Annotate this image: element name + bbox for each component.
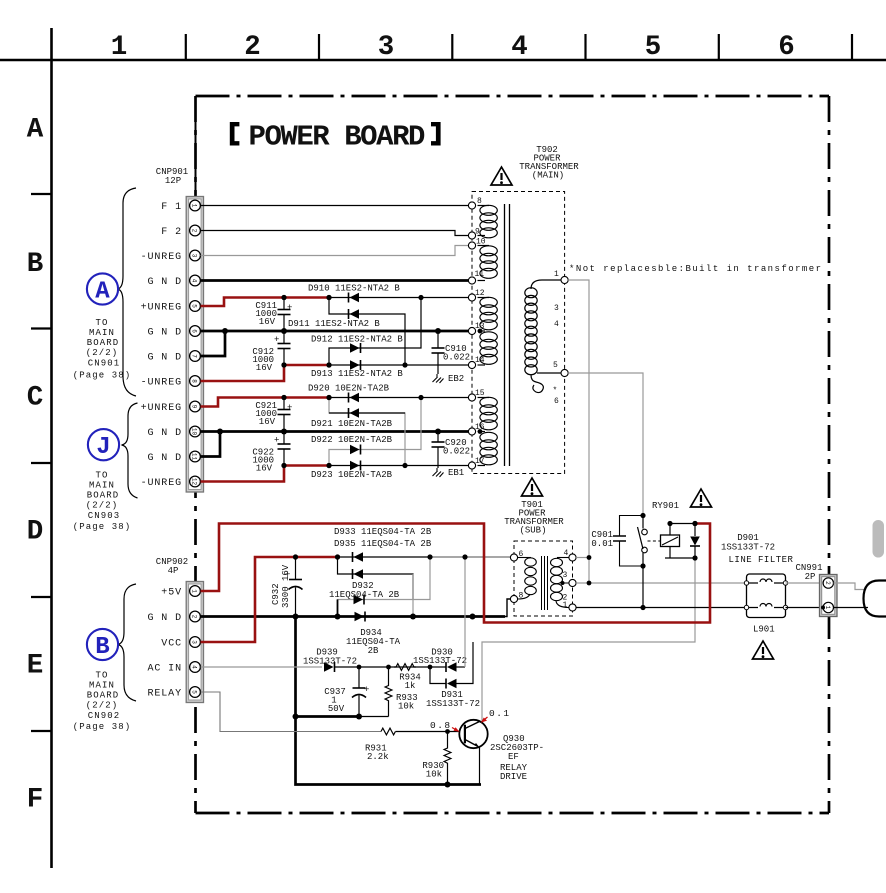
warning triangle T902 bbox=[491, 167, 512, 185]
AC plug bbox=[864, 581, 886, 617]
svg-text:MAIN: MAIN bbox=[89, 681, 115, 691]
label D934 bbox=[346, 628, 401, 656]
svg-text:17: 17 bbox=[475, 457, 485, 466]
svg-text:3: 3 bbox=[563, 571, 568, 580]
svg-text:D933 11EQS04-TA 2B: D933 11EQS04-TA 2B bbox=[334, 527, 432, 537]
svg-text:(2/2): (2/2) bbox=[86, 348, 119, 358]
red wire +5V loop bbox=[201, 524, 711, 623]
svg-text:4: 4 bbox=[511, 32, 528, 63]
wire D934 rail to T901 pin8 bbox=[473, 599, 511, 617]
svg-text:D911 11ES2-NTA2 B: D911 11ES2-NTA2 B bbox=[288, 319, 380, 329]
wire D932 left leg bbox=[337, 600, 339, 617]
red wire -UNREG pin8 bbox=[201, 365, 330, 381]
diode D935 bbox=[353, 569, 364, 579]
wire D911 branch bbox=[329, 298, 405, 366]
svg-text:LINE FILTER: LINE FILTER bbox=[729, 555, 794, 565]
svg-text:D935 11EQS04-TA 2B: D935 11EQS04-TA 2B bbox=[334, 539, 432, 549]
wire D933 rail y=557 bbox=[338, 556, 511, 558]
svg-text:G N D: G N D bbox=[147, 328, 182, 339]
svg-text:CN901: CN901 bbox=[88, 359, 121, 369]
wire D931 branch bbox=[430, 642, 473, 684]
T901 pin3 dot bbox=[561, 581, 565, 585]
svg-text:MAIN: MAIN bbox=[89, 328, 115, 338]
svg-text:(2/2): (2/2) bbox=[86, 501, 119, 511]
svg-text:2B: 2B bbox=[368, 646, 379, 656]
wire filter to CN991 top bbox=[786, 582, 823, 584]
svg-text:14: 14 bbox=[475, 356, 485, 365]
right bracket bbox=[431, 122, 441, 146]
svg-text:4: 4 bbox=[191, 279, 198, 283]
red wire VCC bbox=[201, 557, 338, 642]
svg-text:16V: 16V bbox=[256, 363, 273, 373]
svg-text:12: 12 bbox=[475, 289, 485, 298]
wire -UNREG to T902 pin10 bbox=[201, 246, 469, 256]
junction dots upper section bbox=[217, 295, 441, 468]
diode D923 bbox=[350, 461, 361, 471]
capacitor C912 bbox=[274, 331, 291, 365]
svg-text:C932: C932 bbox=[271, 583, 281, 605]
wire F1 to T902 pin8 bbox=[201, 205, 469, 207]
capacitor C910 bbox=[432, 331, 445, 374]
svg-text:D923 10E2N-TA2B: D923 10E2N-TA2B bbox=[311, 470, 393, 480]
svg-text:D922 10E2N-TA2B: D922 10E2N-TA2B bbox=[311, 435, 393, 445]
diode D932 bbox=[354, 595, 365, 605]
label R930 10k bbox=[422, 761, 444, 780]
svg-text:BOARD: BOARD bbox=[87, 691, 120, 701]
red wire +UNREG pin5 bbox=[201, 298, 330, 307]
wire D921 diode lead bbox=[329, 412, 405, 414]
resistor R934 bbox=[394, 664, 416, 671]
wire thick C937 bottom rail bbox=[296, 715, 360, 718]
diode D935 branch wire bbox=[338, 557, 414, 600]
svg-text:+: + bbox=[287, 403, 292, 413]
svg-text:CN903: CN903 bbox=[88, 511, 121, 521]
wire thick GND riser and C937 rail bbox=[296, 617, 482, 785]
svg-text:TO: TO bbox=[95, 318, 108, 328]
L901 side node diamonds bbox=[744, 581, 787, 610]
svg-text:15: 15 bbox=[475, 389, 485, 398]
svg-text:*Not replacesble:Built in tran: *Not replacesble:Built in transformer bbox=[569, 264, 822, 274]
T902 primary pin numbers bbox=[553, 270, 560, 406]
svg-text:12: 12 bbox=[191, 478, 198, 486]
svg-text:J: J bbox=[96, 434, 110, 461]
T902 winding pins 15-16-17 bbox=[478, 397, 498, 465]
diode D913 bbox=[350, 360, 361, 370]
svg-text:2: 2 bbox=[824, 581, 831, 585]
svg-text:16V: 16V bbox=[259, 317, 276, 327]
wire GND pin2 thick rail bbox=[201, 615, 506, 618]
wire border stub bbox=[195, 117, 197, 197]
diode D920 bbox=[349, 393, 360, 403]
ground EB2 bbox=[433, 374, 444, 383]
capacitor C920 bbox=[432, 432, 445, 469]
node A text TO MAIN BOARD CN901 bbox=[73, 318, 132, 381]
node J text TO MAIN BOARD CN903 bbox=[73, 471, 132, 533]
wire GND pin6 to T902 pin13 (thick) bbox=[201, 330, 469, 333]
capacitor C911 bbox=[278, 298, 293, 332]
diode D934 (on thick rail) bbox=[355, 612, 366, 622]
label T901 POWER TRANSFORMER (SUB) bbox=[504, 500, 564, 536]
svg-text:6: 6 bbox=[778, 32, 795, 63]
junction dots on red rails bbox=[281, 295, 697, 560]
wire F2 to T902 pin9 bbox=[201, 231, 469, 236]
svg-text:9: 9 bbox=[191, 405, 198, 409]
svg-text:4: 4 bbox=[554, 320, 559, 329]
T902 winding pins 10-11 bbox=[478, 246, 498, 281]
label CNP901 12P bbox=[156, 167, 188, 186]
svg-text:9: 9 bbox=[475, 228, 480, 237]
svg-text:16V: 16V bbox=[256, 464, 273, 474]
svg-text:D901: D901 bbox=[737, 533, 759, 543]
svg-text:2: 2 bbox=[191, 229, 198, 233]
svg-text:4: 4 bbox=[564, 549, 569, 558]
svg-text:1: 1 bbox=[554, 270, 559, 279]
diode D921 bbox=[349, 408, 360, 418]
svg-text:0.1: 0.1 bbox=[489, 708, 511, 719]
svg-text:EF: EF bbox=[508, 752, 519, 762]
label C921 bbox=[255, 401, 277, 427]
svg-text:16: 16 bbox=[475, 423, 485, 432]
CNP901 pin name labels bbox=[141, 202, 182, 489]
diode D939 bbox=[324, 662, 335, 672]
transistor Q930 bbox=[459, 720, 487, 785]
wire D920 row to T902 pin15 bbox=[329, 397, 469, 399]
brace group A (pins 1-8) bbox=[118, 188, 137, 396]
svg-text:TO: TO bbox=[95, 471, 108, 481]
svg-text:2.2k: 2.2k bbox=[367, 752, 389, 762]
wire D922 branch bbox=[329, 398, 421, 466]
ground EB1 bbox=[433, 468, 444, 477]
svg-text:-UNREG: -UNREG bbox=[141, 252, 182, 263]
wire D913 row to T902 pin14 bbox=[329, 364, 469, 366]
svg-text:DRIVE: DRIVE bbox=[500, 772, 527, 782]
CNP902 pin circles 1-5 bbox=[190, 586, 201, 698]
svg-text:50V: 50V bbox=[328, 704, 345, 714]
ruler row letters bbox=[27, 115, 44, 816]
wire T901 pin3 to line filter bbox=[576, 582, 746, 584]
svg-text:D910 11ES2-NTA2 B: D910 11ES2-NTA2 B bbox=[308, 284, 400, 294]
label T902 POWER TRANSFORMER (MAIN) bbox=[519, 145, 579, 181]
svg-text:F: F bbox=[27, 785, 44, 816]
capacitor C932 bbox=[285, 557, 303, 617]
wire R933 bottom lead bbox=[359, 716, 389, 718]
CNP902 pin name labels bbox=[147, 588, 182, 700]
label CN991 2P bbox=[795, 563, 822, 582]
title POWER BOARD bbox=[230, 120, 441, 153]
wire T902 pin1 down bbox=[568, 280, 589, 583]
gray pill (scroll thumb) bbox=[873, 520, 885, 558]
label C911 bbox=[255, 301, 277, 327]
resistor R930 bbox=[444, 732, 451, 785]
svg-text:F 1: F 1 bbox=[161, 202, 182, 213]
svg-text:5: 5 bbox=[553, 361, 558, 370]
red wire +UNREG pin9 bbox=[201, 398, 330, 407]
node A circle bbox=[87, 273, 118, 305]
svg-text:1: 1 bbox=[563, 601, 568, 610]
T901 pin numbers bbox=[519, 549, 569, 610]
svg-text:6: 6 bbox=[191, 329, 198, 333]
svg-text:C: C bbox=[27, 383, 44, 414]
svg-text:5: 5 bbox=[645, 32, 662, 63]
T901 dashed box bbox=[514, 541, 573, 616]
connector CNP902 bbox=[186, 582, 203, 703]
capacitor C922 bbox=[274, 432, 291, 466]
diode D933 bbox=[353, 552, 364, 562]
svg-text:VCC: VCC bbox=[161, 639, 182, 650]
label C901 0.01 bbox=[591, 530, 613, 549]
svg-text:11: 11 bbox=[475, 270, 485, 279]
svg-text:+5V: +5V bbox=[161, 588, 182, 599]
svg-text:4: 4 bbox=[191, 665, 198, 669]
T902 center tap dots bbox=[478, 329, 483, 334]
svg-text:G N D: G N D bbox=[147, 453, 182, 464]
junction dots lower section bbox=[293, 554, 476, 787]
svg-text:5: 5 bbox=[191, 304, 198, 308]
svg-text:D913 11ES2-NTA2 B: D913 11ES2-NTA2 B bbox=[311, 369, 403, 379]
wire GND pin4 to T902 pin11 (thick) bbox=[201, 279, 469, 282]
label CNP902 4P bbox=[156, 557, 188, 576]
svg-text:EB2: EB2 bbox=[448, 374, 464, 384]
svg-text:(MAIN): (MAIN) bbox=[532, 171, 564, 181]
ruler ticks top bbox=[186, 34, 852, 60]
T901 pin terminals bbox=[510, 554, 576, 611]
svg-text:AC IN: AC IN bbox=[147, 664, 182, 675]
svg-text:16V: 16V bbox=[259, 417, 276, 427]
T901 core bbox=[542, 556, 548, 610]
T902 primary winding bbox=[525, 280, 561, 393]
svg-text:0.022: 0.022 bbox=[443, 447, 470, 457]
svg-text:A: A bbox=[95, 279, 110, 306]
svg-text:10: 10 bbox=[476, 238, 486, 247]
wire rail gray portion to T901 pin6 bbox=[430, 556, 511, 558]
svg-text:B: B bbox=[95, 634, 109, 661]
label D932 bbox=[329, 581, 400, 600]
CNP901 pin circles 1-12 bbox=[190, 200, 201, 487]
wire CN991 pin1 to plug bbox=[834, 607, 869, 609]
T902 winding pins 8-9 bbox=[478, 205, 498, 238]
T901 left winding bbox=[518, 558, 537, 600]
svg-text:1: 1 bbox=[824, 606, 831, 610]
wire D931/collector return rail bbox=[482, 558, 695, 723]
label C932 3300 16V (rotated) bbox=[271, 564, 291, 608]
connector CN991 bbox=[820, 575, 838, 617]
svg-text:(Page 38): (Page 38) bbox=[73, 371, 132, 381]
svg-text:TO: TO bbox=[95, 671, 108, 681]
label D930 bbox=[413, 648, 467, 667]
wire GND pin10 to T902 pin16 (thick) bbox=[201, 430, 469, 433]
svg-text:G N D: G N D bbox=[147, 613, 182, 624]
label Q930 2SC2603TP-EF bbox=[490, 734, 544, 782]
resistor R931 bbox=[381, 728, 395, 735]
wire CN991 pin2 to plug bbox=[834, 583, 865, 590]
svg-text:1SS133T-72: 1SS133T-72 bbox=[303, 657, 357, 667]
T902 winding pins 12-13-14 bbox=[478, 297, 498, 365]
T902 primary pin terminals 1,5 bbox=[561, 276, 568, 376]
svg-text:D921 10E2N-TA2B: D921 10E2N-TA2B bbox=[311, 419, 393, 429]
svg-text:A: A bbox=[27, 115, 44, 146]
svg-text:1: 1 bbox=[111, 32, 128, 63]
svg-text:D: D bbox=[27, 517, 44, 548]
connector CNP901 bbox=[186, 197, 203, 493]
svg-text:6: 6 bbox=[554, 397, 559, 406]
svg-text:+: + bbox=[274, 436, 279, 446]
wire D930 up to rail bbox=[457, 666, 466, 668]
svg-text:+: + bbox=[364, 685, 369, 695]
svg-text:+: + bbox=[287, 303, 292, 313]
relay coil box bbox=[648, 524, 696, 559]
label R934 1k bbox=[399, 673, 421, 692]
L901 top winding bbox=[747, 579, 786, 583]
left bracket bbox=[230, 122, 240, 146]
svg-text:8: 8 bbox=[519, 592, 524, 601]
wire RELAY pin to base row bbox=[201, 692, 382, 732]
svg-text:3: 3 bbox=[554, 304, 559, 313]
wire AC row from D939 to D930 bbox=[335, 666, 447, 668]
label D939 bbox=[303, 648, 357, 667]
svg-text:8: 8 bbox=[191, 379, 198, 383]
diode D922 bbox=[350, 445, 361, 455]
wire D912 branch bbox=[329, 298, 421, 366]
diode D912 bbox=[350, 343, 361, 353]
svg-text:+UNREG: +UNREG bbox=[141, 403, 182, 414]
svg-text:5: 5 bbox=[191, 690, 198, 694]
label D931 bbox=[426, 690, 480, 709]
svg-text:D920 10E2N-TA2B: D920 10E2N-TA2B bbox=[308, 384, 390, 394]
svg-text:(Page 38): (Page 38) bbox=[73, 722, 132, 732]
red annotation 0.8 bbox=[430, 720, 460, 732]
svg-text:BOARD: BOARD bbox=[87, 338, 120, 348]
warning triangle T901 bbox=[522, 478, 543, 496]
svg-text:*: * bbox=[553, 387, 558, 396]
T902 dashed box bbox=[472, 192, 565, 474]
diode D911 bbox=[349, 309, 360, 319]
wire GND pin11 joins rail bbox=[201, 432, 221, 457]
wire base lead bbox=[396, 731, 460, 733]
svg-text:13: 13 bbox=[475, 322, 485, 331]
brace group J (pins 9-12) bbox=[122, 403, 138, 498]
capacitor C921 bbox=[278, 398, 293, 432]
wire T902 pin5 to relay bbox=[568, 373, 643, 516]
node B circle bbox=[87, 629, 118, 661]
label C937 1 50V bbox=[324, 687, 346, 714]
ruler column numbers bbox=[111, 32, 795, 63]
svg-text:L901: L901 bbox=[753, 625, 775, 635]
warning triangle RY901 bbox=[691, 489, 712, 507]
wire D921 branch bbox=[329, 398, 405, 466]
svg-text:2: 2 bbox=[244, 32, 261, 63]
label C912 bbox=[252, 347, 274, 373]
svg-text:+: + bbox=[274, 335, 279, 345]
svg-text:F 2: F 2 bbox=[161, 227, 182, 238]
svg-text:11EQS04-TA 2B: 11EQS04-TA 2B bbox=[329, 590, 400, 600]
T902 secondary pin numbers bbox=[475, 197, 486, 466]
svg-text:12P: 12P bbox=[165, 176, 181, 186]
label C910 bbox=[443, 344, 470, 363]
svg-text:G N D: G N D bbox=[147, 353, 182, 364]
line filter L901 box bbox=[747, 574, 786, 618]
svg-text:(SUB): (SUB) bbox=[519, 526, 546, 536]
capacitor C901 bbox=[613, 516, 643, 567]
node J circle bbox=[88, 429, 119, 461]
red wire -UNREG pin12 bbox=[201, 466, 330, 482]
svg-text:6: 6 bbox=[519, 550, 524, 559]
svg-text:7: 7 bbox=[191, 354, 198, 358]
svg-text:3300 16V: 3300 16V bbox=[281, 564, 291, 608]
label D901 1SS133T-72 LINE FILTER bbox=[721, 533, 794, 565]
wire AC bottom line T901 pin1 to line filter bbox=[576, 607, 746, 609]
warning triangle L901 bbox=[753, 641, 774, 659]
svg-text:4P: 4P bbox=[168, 566, 179, 576]
capacitor C937 bbox=[352, 667, 369, 717]
svg-text:3: 3 bbox=[191, 254, 198, 258]
svg-text:1SS133T-72: 1SS133T-72 bbox=[413, 656, 467, 666]
label R933 10k bbox=[396, 693, 418, 712]
diode D931 bbox=[446, 679, 457, 689]
L901 bottom winding bbox=[747, 604, 786, 608]
wire GND pin7 joins pin6 rail bbox=[201, 331, 226, 356]
svg-text:3: 3 bbox=[191, 640, 198, 644]
svg-text:3: 3 bbox=[378, 32, 395, 63]
wire filter to CN991 bottom bbox=[786, 607, 823, 609]
T902 core bbox=[505, 204, 510, 466]
svg-text:B: B bbox=[27, 249, 44, 280]
brace group B (pins 1-5) bbox=[118, 584, 136, 701]
T902 secondary pin terminals bbox=[468, 202, 475, 469]
svg-text:BOARD: BOARD bbox=[87, 491, 120, 501]
svg-text:(2/2): (2/2) bbox=[86, 701, 119, 711]
svg-text:(Page 38): (Page 38) bbox=[73, 522, 132, 532]
svg-text:10k: 10k bbox=[398, 702, 414, 712]
svg-text:G N D: G N D bbox=[147, 428, 182, 439]
svg-text:0.022: 0.022 bbox=[443, 353, 470, 363]
svg-text:1: 1 bbox=[191, 589, 198, 593]
diode D932 wire bbox=[338, 557, 431, 617]
diode D910 bbox=[349, 293, 360, 303]
svg-text:1k: 1k bbox=[405, 681, 416, 691]
resistor R933 bbox=[385, 667, 392, 717]
svg-text:POWER BOARD: POWER BOARD bbox=[249, 120, 426, 153]
svg-text:1SS133T-72: 1SS133T-72 bbox=[426, 699, 480, 709]
svg-text:EB1: EB1 bbox=[448, 468, 464, 478]
svg-text:0.01: 0.01 bbox=[591, 539, 613, 549]
svg-text:E: E bbox=[27, 651, 44, 682]
wire T901 pin4 to junction bbox=[576, 557, 589, 559]
svg-text:RY901: RY901 bbox=[652, 501, 679, 511]
red annotation 0.1 bbox=[481, 708, 511, 723]
junction dots relay area bbox=[587, 513, 698, 610]
svg-text:2: 2 bbox=[191, 615, 198, 619]
svg-text:1SS133T-72: 1SS133T-72 bbox=[721, 543, 775, 553]
label R931 2.2k bbox=[365, 744, 389, 763]
diode D930 bbox=[446, 662, 457, 672]
wire D935 to GND rail gray bbox=[412, 574, 414, 617]
label C920 bbox=[443, 438, 470, 457]
svg-text:8: 8 bbox=[477, 197, 482, 206]
svg-text:-UNREG: -UNREG bbox=[141, 378, 182, 389]
wire AC IN row bbox=[201, 666, 323, 668]
node B text TO MAIN BOARD CN902 bbox=[73, 671, 132, 733]
svg-text:MAIN: MAIN bbox=[89, 481, 115, 491]
svg-text:+UNREG: +UNREG bbox=[141, 303, 182, 314]
relay diode bbox=[690, 524, 700, 559]
svg-text:11: 11 bbox=[191, 453, 198, 461]
svg-text:10: 10 bbox=[191, 428, 198, 436]
svg-text:10k: 10k bbox=[426, 770, 442, 780]
svg-text:RELAY: RELAY bbox=[147, 689, 182, 700]
svg-text:-UNREG: -UNREG bbox=[141, 478, 182, 489]
label C922 bbox=[252, 448, 274, 474]
wire D910 row to T902 pin12 bbox=[329, 297, 469, 299]
